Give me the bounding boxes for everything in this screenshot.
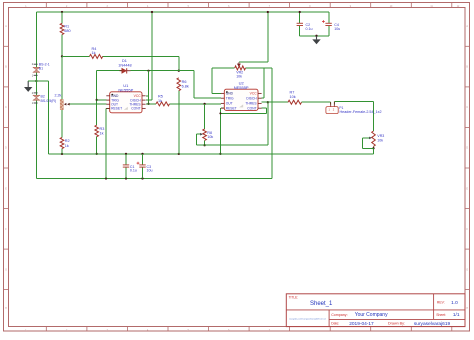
svg-text:A: A xyxy=(5,25,7,28)
wire VR2 right long down xyxy=(271,68,273,179)
svg-text:E: E xyxy=(5,188,7,190)
junction D1 line / R6 xyxy=(178,70,180,72)
pot 2.2k wiper arrows xyxy=(64,103,70,106)
svg-text:DISCH: DISCH xyxy=(246,97,257,101)
wire down to U2 TRIG xyxy=(193,71,195,99)
svg-text:NE555P: NE555P xyxy=(234,85,249,90)
svg-text:1k: 1k xyxy=(65,144,69,148)
buzzer B2 BS-0.5 xyxy=(32,92,56,105)
wire R2 bottom to bus xyxy=(61,149,63,154)
wire U2 DISCH to x264 xyxy=(262,97,264,99)
junction mid-bus pot xyxy=(61,153,63,155)
buzzer B1 BS-2-1 xyxy=(32,62,50,77)
svg-text:R6: R6 xyxy=(182,80,187,84)
junction B1 bottom node xyxy=(35,80,37,82)
junction R8 bottom xyxy=(203,144,205,146)
svg-text:680: 680 xyxy=(64,29,70,33)
potentiometer VR2 10k xyxy=(235,66,246,79)
wire R3 bottom to bus xyxy=(96,137,98,154)
junction D1 line x148 xyxy=(147,70,149,72)
svg-text:2: 2 xyxy=(32,63,34,66)
svg-text:Sheet_1: Sheet_1 xyxy=(310,301,333,307)
wire D1 line left segment xyxy=(97,70,122,72)
svg-text:1/1: 1/1 xyxy=(453,312,460,318)
wire pot bottom to R2 xyxy=(61,110,63,138)
svg-text:2: 2 xyxy=(32,92,34,95)
wire U1 RESET stubwire xyxy=(106,107,110,109)
wire C4 bottom stem xyxy=(328,26,330,36)
wire B2 bottom long xyxy=(35,100,37,178)
wire bus drop DISCH U1 xyxy=(151,12,153,100)
svg-text:NE555P: NE555P xyxy=(118,88,133,93)
svg-text:2019-04-17: 2019-04-17 xyxy=(349,321,374,327)
wire U1 VCC to x148 xyxy=(146,95,149,97)
wire THRES node to R5 xyxy=(149,103,157,105)
svg-text:B1: B1 xyxy=(39,66,43,70)
wire B1 bottom xyxy=(35,72,37,81)
svg-text:0.1u: 0.1u xyxy=(306,27,313,31)
wire C1 top stem xyxy=(125,154,127,165)
wire bottom bus xyxy=(36,178,272,180)
wire U2 RESET drop xyxy=(219,108,221,154)
wire into U2 CONT xyxy=(262,107,267,109)
wire pot wiper to U1 OUT xyxy=(69,103,107,105)
svg-text:A: A xyxy=(466,25,468,28)
wire C1 bottom stem xyxy=(125,167,127,178)
wire bus to R1 top xyxy=(61,12,63,23)
junction R3-bus xyxy=(96,153,98,155)
svg-text:suryaselvaraj619: suryaselvaraj619 xyxy=(414,321,451,327)
wire R4 right to corner xyxy=(103,55,179,57)
wire VCC top bus xyxy=(37,11,329,13)
connector P1 Header-Female xyxy=(326,102,382,114)
resistor R5 xyxy=(156,95,170,106)
junction bus x268 xyxy=(267,11,269,13)
wire x148 down to THRES xyxy=(148,71,150,104)
svg-text:TRIG: TRIG xyxy=(226,97,234,101)
wire D1 line corner down left xyxy=(96,71,98,126)
svg-text:OUT: OUT xyxy=(226,102,233,106)
title block frame xyxy=(286,294,465,327)
svg-text:C: C xyxy=(466,107,468,109)
resistor R2 xyxy=(60,138,69,149)
wire mid bus xyxy=(48,153,373,155)
wire left node horizontal xyxy=(36,80,48,82)
svg-text:R1: R1 xyxy=(64,25,69,29)
svg-text:C: C xyxy=(5,107,7,109)
wire VR2 left line xyxy=(212,67,235,69)
wire D1 line right segment xyxy=(179,70,194,72)
wire C3 bottom stem xyxy=(142,167,144,178)
svg-text:2.2k: 2.2k xyxy=(55,94,62,98)
wire bus drop to VR2 wiper xyxy=(267,12,269,62)
junction under-U2 xyxy=(219,112,221,114)
svg-text:D1: D1 xyxy=(122,59,127,63)
wire P1 pin1 drop xyxy=(330,102,332,104)
wire x264 up to VR2 line xyxy=(263,68,265,98)
junction bus x152 xyxy=(151,11,153,13)
wire R6 bottom to bus xyxy=(178,91,180,154)
wire R8 node to x268 xyxy=(205,144,268,146)
svg-text:VCC: VCC xyxy=(250,92,258,96)
svg-text:Date:: Date: xyxy=(331,321,339,325)
wire bus down to B1 xyxy=(36,12,38,67)
svg-text:easyeda.com/suryaselvaraj619-c: easyeda.com/suryaselvaraj619-circuit xyxy=(289,318,326,321)
wire R8 wiper horizontal xyxy=(196,133,200,135)
junction bottom-bus C3 xyxy=(141,177,143,179)
svg-text:TITLE:: TITLE: xyxy=(289,296,299,300)
wire VR3 wiper loop down xyxy=(361,138,363,148)
capacitor C2 0.1u xyxy=(297,23,313,31)
svg-text:D: D xyxy=(466,148,468,150)
wire into U2 GND xyxy=(212,92,221,94)
wire VR3 wiper loop bottom xyxy=(362,147,373,149)
svg-text:10k: 10k xyxy=(377,138,383,142)
junction RESET-bus xyxy=(219,153,221,155)
wire R8 wiper loop bottom xyxy=(196,144,204,146)
svg-text:10u: 10u xyxy=(334,27,340,31)
svg-text:D: D xyxy=(5,148,7,150)
svg-text:1: 1 xyxy=(32,74,34,77)
capacitor C3 10u xyxy=(137,162,153,173)
svg-text:10u: 10u xyxy=(147,169,153,173)
svg-text:10k: 10k xyxy=(290,95,296,99)
svg-text:E: E xyxy=(466,188,468,190)
wire C2-C4 bottom xyxy=(300,35,329,37)
svg-text:H: H xyxy=(5,308,7,310)
svg-text:REV:: REV: xyxy=(437,301,445,305)
wire P1 to VR3 xyxy=(334,101,373,103)
svg-text:B: B xyxy=(5,67,7,69)
svg-text:1: 1 xyxy=(32,102,34,105)
wire down to R8 xyxy=(204,104,206,129)
wire VR3 top xyxy=(373,102,375,132)
wire node to R4 left xyxy=(62,55,90,57)
wire D1 line mid segment xyxy=(131,70,179,72)
junction U2 THRES node xyxy=(267,101,269,103)
wire into U1 DISCH xyxy=(146,99,152,101)
wire up to U2 CONT xyxy=(266,108,268,113)
junction mid-bus C3 xyxy=(141,153,143,155)
wire wiper horizontal xyxy=(239,61,268,63)
wire x268 up to U2 THRES node xyxy=(267,102,269,145)
diode D1 1N4448 xyxy=(118,59,131,74)
junction bottom-bus RESET xyxy=(105,177,107,179)
svg-text:1k: 1k xyxy=(100,131,104,135)
svg-text:1N4448: 1N4448 xyxy=(118,63,131,67)
wire R8 bottom short xyxy=(204,140,206,145)
wire VR3 node drop to bus xyxy=(373,148,375,154)
wire under-U2 horizontal xyxy=(220,112,266,114)
trimmer pot 2.2k xyxy=(55,94,64,110)
capacitor C1 0.1u xyxy=(123,165,137,173)
svg-text:F: F xyxy=(466,229,468,231)
R8 wiper arrow xyxy=(200,133,203,136)
svg-text:R3: R3 xyxy=(100,127,105,131)
wire left node down xyxy=(47,81,49,154)
wire bus corner to C4 xyxy=(328,12,330,23)
svg-text:G: G xyxy=(5,269,7,271)
wire R5 to U2 OUT xyxy=(170,103,221,105)
svg-text:B: B xyxy=(466,67,468,69)
junction R5 line / R8 drop xyxy=(203,103,205,105)
junction U1 THRES node xyxy=(147,103,149,105)
svg-text:CONT: CONT xyxy=(247,107,256,111)
svg-text:0.1u: 0.1u xyxy=(130,169,137,173)
svg-text:1k: 1k xyxy=(158,99,162,103)
wire VR3 wiper horizontal xyxy=(362,137,369,139)
svg-text:10k: 10k xyxy=(236,75,242,79)
wire U2 THRES stub wire xyxy=(262,101,268,103)
ground left xyxy=(24,81,32,92)
wire R1 bottom to node xyxy=(61,35,63,57)
svg-text:RESET: RESET xyxy=(226,107,237,111)
resistor R6 xyxy=(177,78,189,91)
junction bus-R1 xyxy=(61,11,63,13)
op-amp U1 NE555P xyxy=(106,83,145,113)
wire VR2 left down xyxy=(211,68,213,94)
wire U1 THRES stub wire xyxy=(146,103,149,105)
resistor R1 xyxy=(60,23,70,34)
wire U2 THRES to R7 xyxy=(268,101,288,103)
VR3 wiper arrow xyxy=(369,137,372,140)
junction VR3 bottom xyxy=(372,147,374,149)
wire corner down to D1 line xyxy=(178,56,180,70)
svg-text:THRES: THRES xyxy=(245,102,257,106)
junction cap gnd xyxy=(315,35,317,37)
svg-text:G: G xyxy=(466,269,468,271)
svg-text:CONT: CONT xyxy=(131,107,140,111)
wire U1 RESET drop xyxy=(105,108,107,178)
wire C3 top stem xyxy=(142,154,144,165)
svg-text:RESET: RESET xyxy=(111,107,122,111)
svg-text:1k: 1k xyxy=(92,51,96,55)
svg-text:10k: 10k xyxy=(207,135,213,139)
wire bus to C2 xyxy=(299,12,301,23)
svg-text:F: F xyxy=(5,229,7,231)
junction bus C2 xyxy=(299,11,301,13)
potentiometer VR3 10k xyxy=(372,131,385,146)
svg-text:Header-Female-2.54_1x2: Header-Female-2.54_1x2 xyxy=(340,110,382,114)
svg-text:Sheet:: Sheet: xyxy=(436,313,446,317)
wire P1 pin2 up xyxy=(333,102,335,105)
wire R7 to P1 corner xyxy=(302,101,331,103)
wire VR3 bottom short xyxy=(373,146,375,148)
wire node to pot top xyxy=(61,56,63,99)
junction U1 TRIG node xyxy=(96,99,98,101)
svg-text:6.8k: 6.8k xyxy=(182,84,189,88)
svg-text:Your Company: Your Company xyxy=(355,312,388,318)
wire into U2 TRIG xyxy=(194,97,221,99)
svg-text:VR3: VR3 xyxy=(377,134,384,138)
svg-text:Drawn By:: Drawn By: xyxy=(388,322,405,326)
ground near caps xyxy=(312,36,320,45)
svg-text:R2: R2 xyxy=(65,139,70,143)
resistor R4 xyxy=(90,47,103,58)
wire R8 wiper loop down xyxy=(195,134,197,145)
wire C2 bottom stem xyxy=(299,26,301,36)
junction bottom-bus C1 xyxy=(125,177,127,179)
junction mid-bus R6 xyxy=(178,153,180,155)
resistor R3 xyxy=(95,125,104,137)
svg-text:Company:: Company: xyxy=(331,313,347,317)
svg-text:1.0: 1.0 xyxy=(451,300,458,306)
wire VR2 right line xyxy=(246,67,273,69)
resistor R7 xyxy=(288,91,302,105)
wire to U1 TRIG xyxy=(97,99,107,101)
wire B2 top xyxy=(35,81,37,95)
op-amp U2 NE555P xyxy=(221,80,262,110)
junction R1-R4 node xyxy=(61,55,63,57)
wire U2 RESET stubwire xyxy=(221,107,225,109)
potentiometer R8 10k xyxy=(203,129,214,140)
capacitor C4 10u xyxy=(322,20,340,31)
svg-text:H: H xyxy=(466,308,468,310)
svg-text:BS-0.5(R): BS-0.5(R) xyxy=(41,99,57,103)
junction mid-bus C1 xyxy=(125,153,127,155)
VR2 wiper arrow xyxy=(238,62,241,66)
